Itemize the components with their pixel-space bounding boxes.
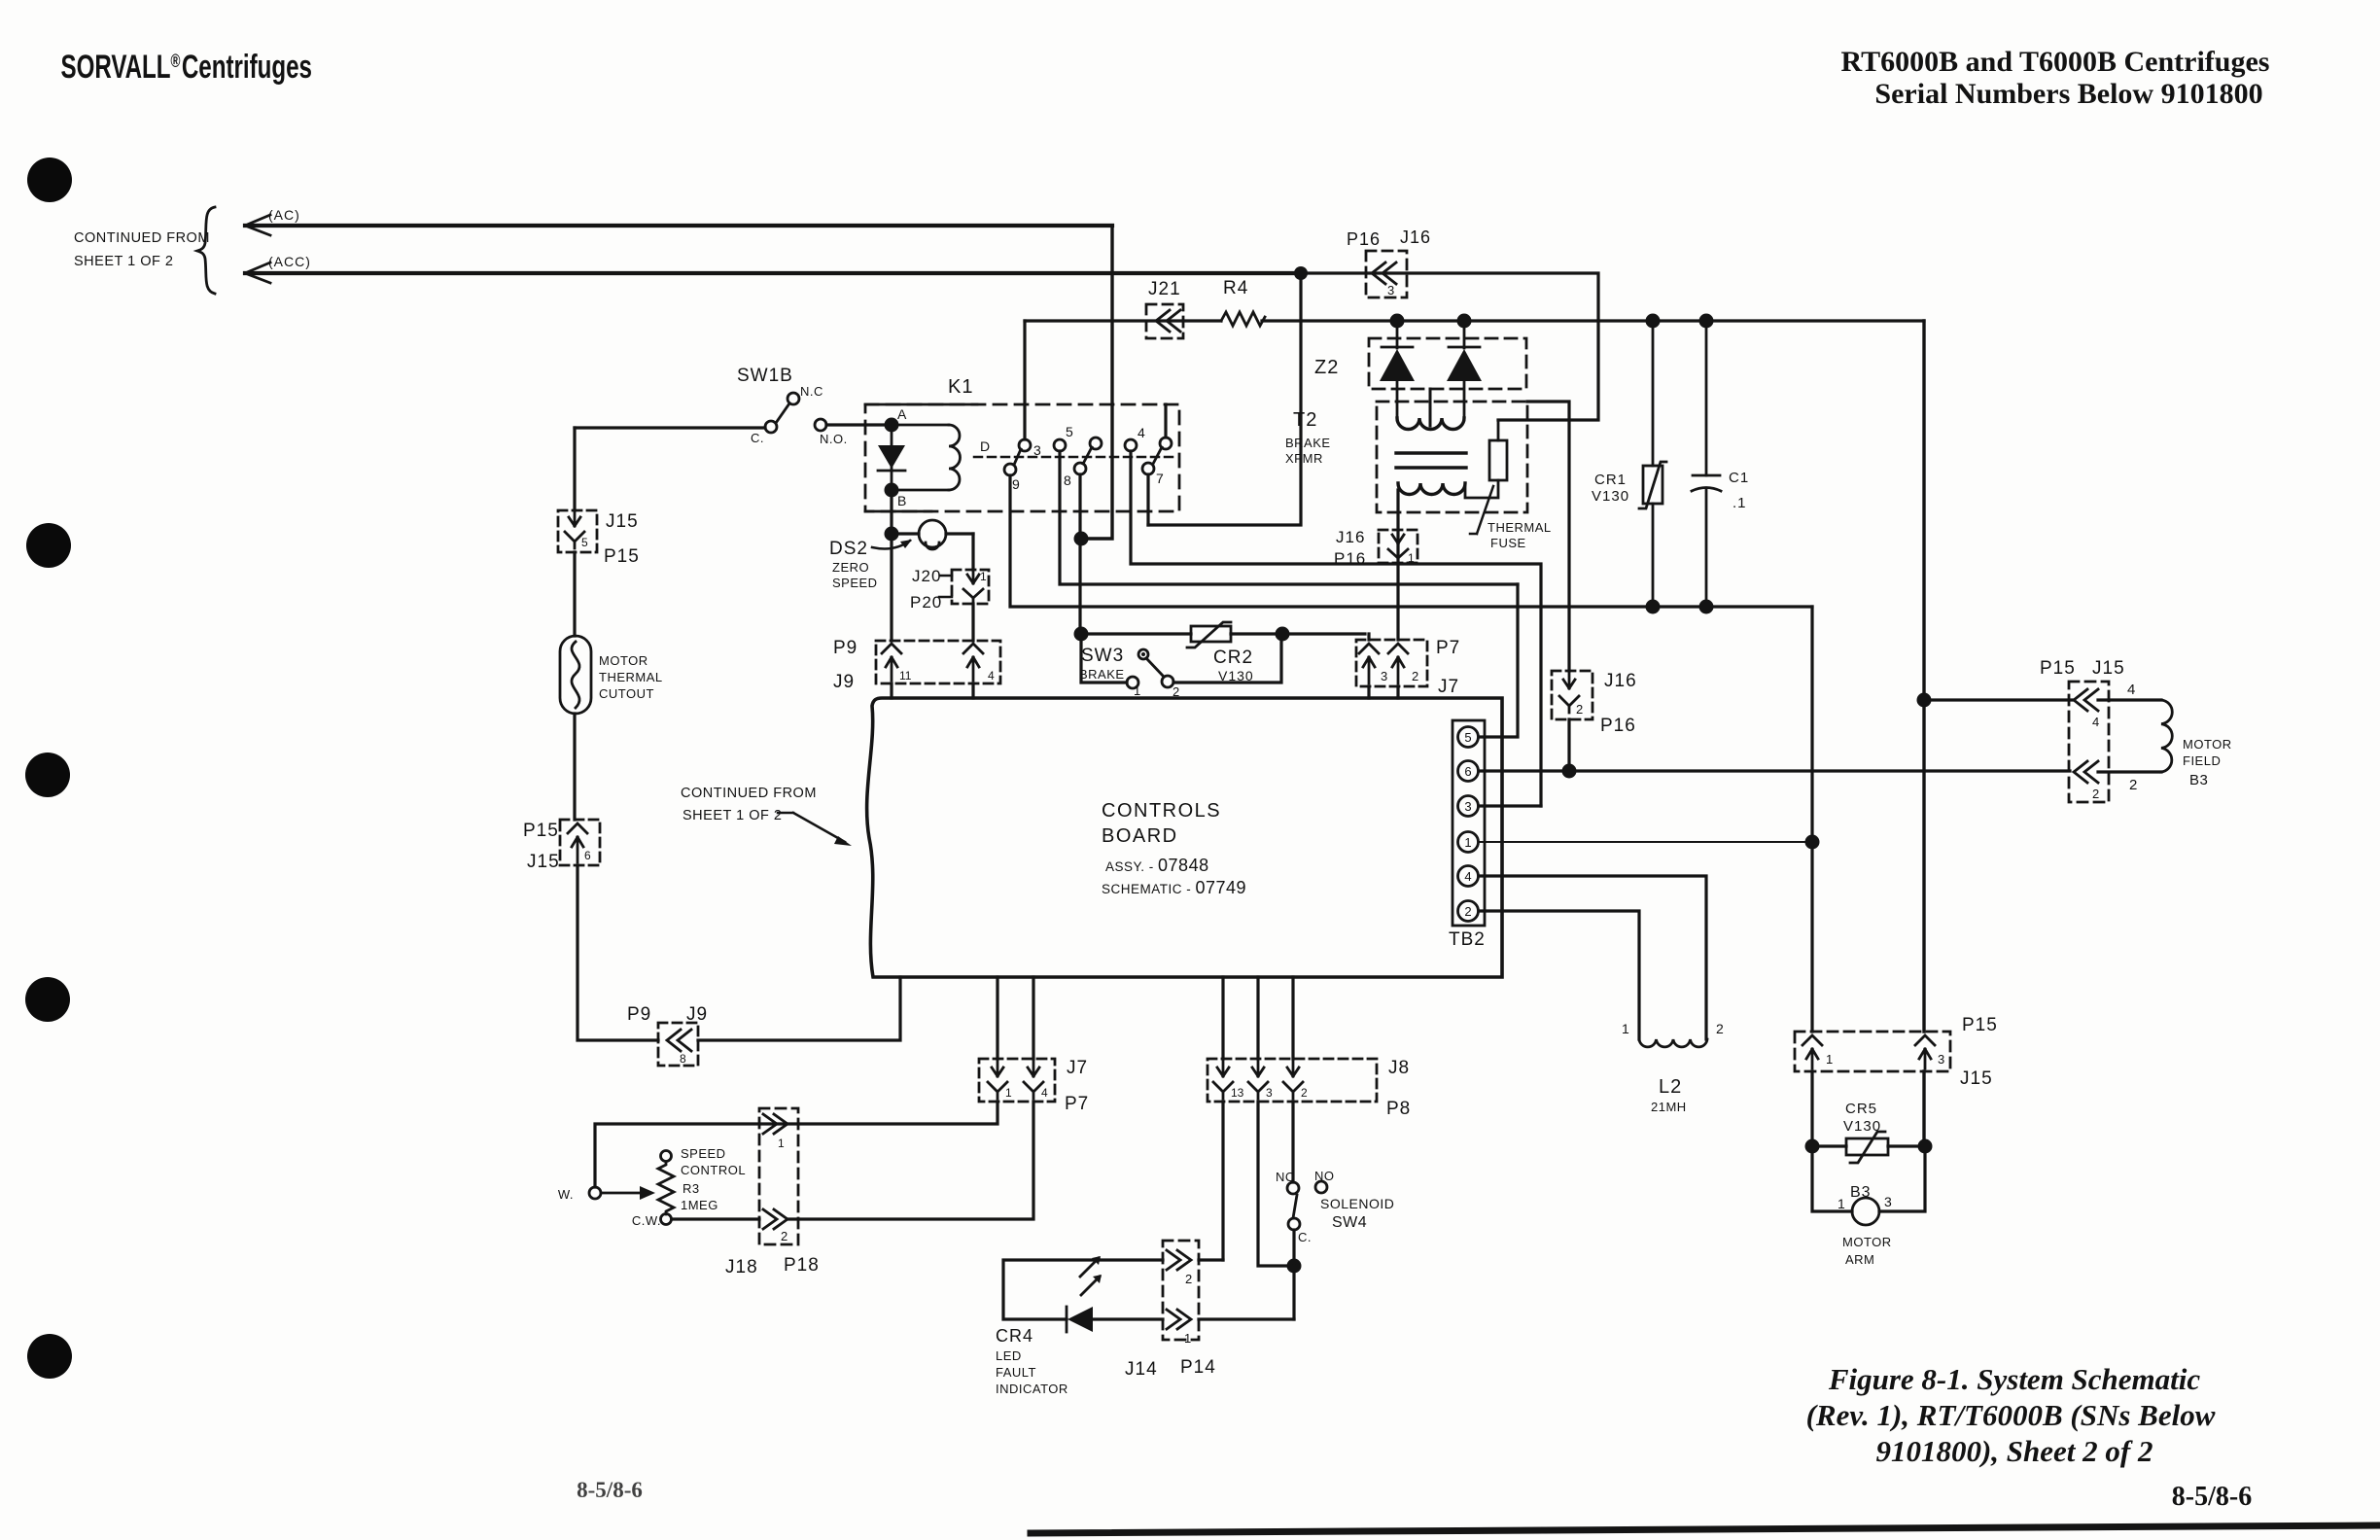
junction motor field tap dot (1917, 693, 1932, 708)
svg-text:BRAKE: BRAKE (1079, 667, 1125, 682)
svg-text:LED: LED (996, 1348, 1022, 1363)
wire TB2-2 to L2 pin 1 (1479, 911, 1639, 1039)
connector P16/J16 pin 3 (1347, 227, 1431, 297)
motor field winding B3 (2161, 700, 2232, 788)
figure caption (1806, 1362, 2216, 1468)
connector P15/J15 pins 4,2 (motor field) (2040, 658, 2125, 802)
svg-text:6: 6 (584, 849, 591, 862)
wire K1 contact7 to ACC drop (1146, 474, 1149, 525)
connector P15/J15 pins 1,3 (motor arm) (1795, 1015, 1998, 1089)
wire P9 pin4 to board (971, 683, 974, 698)
varistor CR5 (1812, 1101, 1925, 1163)
svg-text:J15: J15 (606, 511, 639, 532)
svg-text:FAULT: FAULT (996, 1365, 1036, 1380)
wire board to J8 pins (1223, 977, 1293, 1059)
svg-text:CONTINUED FROM: CONTINUED FROM (74, 230, 210, 246)
svg-text:J15: J15 (2092, 658, 2125, 679)
svg-text:2: 2 (1464, 904, 1471, 919)
continued-from label (top left) (74, 230, 210, 269)
svg-text:1: 1 (1622, 1021, 1629, 1036)
svg-text:J7: J7 (1067, 1058, 1088, 1078)
wire J8 pin13 down to J14 pin2 line (1221, 1102, 1224, 1260)
svg-text:BRAKE: BRAKE (1285, 436, 1331, 450)
connector J21 (1146, 279, 1183, 338)
svg-text:J8: J8 (1388, 1058, 1410, 1078)
varistor CR1 (1592, 321, 1666, 607)
svg-text:B3: B3 (1850, 1184, 1872, 1201)
svg-text:XFMR: XFMR (1285, 451, 1323, 466)
svg-text:P16: P16 (1600, 716, 1636, 736)
wire J9 pin8 to board bottom (698, 977, 900, 1040)
svg-text:3: 3 (1938, 1052, 1944, 1067)
svg-text:P20: P20 (910, 593, 942, 612)
wire TB2-1 to P15 pin1 riser (1479, 841, 1812, 843)
svg-text:INDICATOR: INDICATOR (996, 1382, 1068, 1396)
connector J16/P16 pin 1 (1334, 528, 1417, 568)
svg-text:SHEET 1 OF 2: SHEET 1 OF 2 (682, 808, 782, 823)
wire solenoid node down to J14 pin1 line (1292, 1266, 1295, 1319)
svg-text:2: 2 (2092, 787, 2099, 801)
svg-text:SW3: SW3 (1081, 646, 1124, 666)
svg-text:13: 13 (1231, 1086, 1244, 1100)
wire SW1B common drop (left column) (575, 428, 658, 1040)
svg-text:2: 2 (1301, 1086, 1308, 1100)
node A (885, 418, 899, 433)
svg-text:8-5/8-6: 8-5/8-6 (2172, 1482, 2252, 1512)
svg-text:5: 5 (581, 536, 588, 549)
svg-text:P14: P14 (1180, 1357, 1216, 1378)
punch holes column (25, 157, 72, 1379)
junction TB2-6/J16-2 dot (1562, 764, 1577, 779)
svg-text:P7: P7 (1065, 1094, 1089, 1114)
switch SW3 brake + varistor CR2 (1079, 622, 1365, 699)
diode CR (K1 coil suppression) (891, 425, 893, 490)
svg-text:P16: P16 (1334, 549, 1366, 568)
svg-text:MOTOR: MOTOR (2183, 737, 2232, 752)
svg-text:P15: P15 (604, 546, 640, 567)
potentiometer R3 speed control (558, 1146, 746, 1228)
svg-text:2: 2 (1576, 702, 1583, 717)
connector J18/P18 pins 1,2 (725, 1108, 820, 1277)
svg-text:9: 9 (1012, 476, 1020, 492)
svg-text:4: 4 (2092, 715, 2099, 729)
T2 secondary winding (top, to Z2) (1397, 418, 1464, 430)
svg-text:D: D (980, 438, 990, 454)
transformer T2 brake xfmr (1285, 389, 1552, 550)
svg-text:8: 8 (680, 1052, 686, 1066)
svg-text:MOTOR: MOTOR (599, 653, 648, 668)
T2 core (1396, 453, 1466, 468)
svg-text:SPEED: SPEED (832, 576, 878, 590)
wire J7 pin1 to speed control W (595, 1102, 997, 1187)
svg-text:ZERO: ZERO (832, 560, 869, 575)
svg-text:1MEG: 1MEG (681, 1198, 718, 1212)
junction SW3 right dot (1276, 627, 1290, 642)
svg-text:J16: J16 (1400, 227, 1431, 247)
svg-text:4: 4 (1137, 425, 1145, 440)
node B (885, 483, 899, 498)
svg-text:THERMAL: THERMAL (599, 670, 663, 684)
svg-text:SHEET 1 OF 2: SHEET 1 OF 2 (74, 254, 173, 269)
svg-text:1: 1 (1408, 551, 1415, 565)
T2 primary winding (bottom) (1398, 483, 1465, 495)
svg-text:SORVALL®Centrifuges: SORVALL®Centrifuges (60, 49, 311, 86)
svg-text:L2: L2 (1659, 1076, 1682, 1098)
svg-text:J15: J15 (527, 852, 560, 872)
svg-text:Serial Numbers Below 9101800: Serial Numbers Below 9101800 (1874, 78, 2262, 110)
page bottom edge scan line (1031, 1525, 2380, 1533)
diode Z2-left (1396, 321, 1399, 420)
svg-text:1: 1 (778, 1137, 785, 1150)
svg-text:CONTROL: CONTROL (681, 1163, 746, 1177)
svg-text:11: 11 (899, 669, 912, 682)
wire K1 contact4 to TB2-3 (1131, 451, 1541, 806)
wire ACC drop to K1 pole 4/7 (1148, 273, 1301, 525)
svg-text:5: 5 (1464, 730, 1471, 745)
svg-text:SW1B: SW1B (737, 366, 793, 386)
wire T2 secondary to J16 pin1 and P7 pin2 (1396, 490, 1399, 698)
svg-text:J7: J7 (1438, 677, 1459, 697)
svg-text:MOTOR: MOTOR (1842, 1235, 1892, 1249)
svg-text:1: 1 (1134, 683, 1140, 698)
wire ACC line with left arrowhead (245, 271, 1301, 275)
wire motor field pin2 (2098, 770, 2161, 773)
relay K1 (865, 376, 1179, 511)
junction solenoid node dot (1287, 1259, 1302, 1274)
svg-text:ARM: ARM (1845, 1252, 1874, 1267)
svg-text:P18: P18 (784, 1255, 820, 1276)
svg-text:21MH: 21MH (1651, 1100, 1687, 1114)
wire TB2-5 to contact5 bus (1479, 584, 1518, 737)
svg-text:J20: J20 (912, 567, 941, 585)
svg-text:2: 2 (1185, 1272, 1192, 1286)
terminal strip TB2 (1449, 720, 1486, 950)
svg-text:CONTINUED FROM: CONTINUED FROM (681, 786, 817, 801)
svg-text:(ACC): (ACC) (268, 254, 311, 269)
svg-text:1: 1 (1005, 1086, 1012, 1100)
coil K1 (892, 425, 949, 490)
svg-text:TB2: TB2 (1449, 929, 1486, 950)
svg-text:4: 4 (2127, 682, 2135, 698)
svg-text:THERMAL: THERMAL (1487, 520, 1552, 535)
wire DS2 to J20 (971, 534, 974, 641)
wire TB2-3 stub (1479, 804, 1541, 807)
junction DS2/coil-B dot (885, 527, 899, 542)
svg-text:J14: J14 (1125, 1359, 1158, 1380)
svg-text:CR4: CR4 (996, 1326, 1033, 1346)
wire motor-arm bus corner down right side (1810, 607, 1813, 1146)
svg-text:CR2: CR2 (1213, 647, 1253, 668)
junction SW3 left dot (1074, 627, 1089, 642)
dual diode Z2 (1314, 321, 1526, 420)
connector J14/P14 pins 2,1 (1125, 1241, 1216, 1380)
svg-text:6: 6 (1464, 764, 1471, 779)
svg-text:V130: V130 (1592, 488, 1629, 505)
connector J20/P20 (910, 567, 989, 612)
wire TB2-6 to motor field pin2 (1479, 769, 2070, 772)
controls board outline (867, 698, 1502, 977)
wire motor field pin4 (1924, 698, 2161, 701)
thermal switch motor thermal cutout (560, 636, 663, 714)
wire AC line with left arrowhead (245, 224, 1112, 227)
connector P9/J9 pins 11,4 (833, 638, 1000, 692)
svg-text:P8: P8 (1386, 1099, 1411, 1119)
svg-text:8: 8 (1064, 472, 1071, 488)
svg-text:K1: K1 (948, 376, 973, 398)
wire Z2-left cathode to J16 pin2 chain (1527, 402, 1569, 771)
connector J16/P16 pin 2 (1552, 671, 1637, 736)
svg-text:2: 2 (781, 1229, 787, 1243)
svg-text:N.O.: N.O. (820, 432, 848, 446)
contact K1-4/7 (1125, 439, 1137, 451)
controls board title (1102, 800, 1246, 897)
continued-from label (board) (681, 786, 817, 823)
svg-text:1: 1 (980, 570, 987, 583)
svg-text:P7: P7 (1436, 638, 1460, 658)
switch SW4 solenoid (1276, 1169, 1394, 1266)
junction CR1 bottom dot (1646, 600, 1661, 614)
wire K1 contact8 / AC junction to SW3 (1078, 474, 1081, 634)
wire K1 pole 4/7 arm riser (1164, 404, 1167, 437)
svg-text:A: A (897, 406, 907, 422)
svg-text:BOARD: BOARD (1102, 825, 1178, 847)
svg-text:C.: C. (1298, 1230, 1312, 1244)
wire SW1B NO to K1 coil (826, 423, 892, 426)
wire J8 pin3 down to solenoid node (1258, 1102, 1294, 1266)
connector P9/J9 pin 8 (627, 1004, 708, 1066)
header right: RT6000B and T6000B Centrifuges / Serial Numbers Below 9101800 (1841, 46, 2270, 110)
connector J7/P7 pins 1,4 (979, 1058, 1089, 1114)
svg-text:P16: P16 (1347, 229, 1381, 249)
svg-text:3: 3 (1381, 669, 1387, 683)
wire J14 pin2 to J8-13 riser (1199, 1258, 1223, 1261)
wire J8 pin2 down to SW4 (1291, 1102, 1294, 1182)
junction TB2-1 dot (1805, 835, 1820, 850)
svg-text:J15: J15 (1960, 1068, 1993, 1089)
wire J14 pin1 to solenoid node (1199, 1317, 1294, 1320)
svg-text:CONTROLS: CONTROLS (1102, 800, 1221, 822)
svg-text:4: 4 (988, 669, 995, 682)
svg-text:2: 2 (1716, 1021, 1724, 1036)
connector P15/J15 pin 6 (523, 820, 600, 872)
svg-text:5: 5 (1066, 424, 1073, 439)
svg-text:9101800), Sheet 2 of 2: 9101800), Sheet 2 of 2 (1875, 1434, 2152, 1468)
svg-text:3: 3 (1387, 283, 1394, 297)
svg-text:T2: T2 (1293, 409, 1317, 431)
svg-text:.1: .1 (1732, 495, 1747, 511)
svg-text:1: 1 (1837, 1196, 1845, 1211)
svg-text:RT6000B and T6000B Centrifuges: RT6000B and T6000B Centrifuges (1841, 46, 2270, 78)
wire board to J7 pins (997, 977, 1033, 1059)
svg-text:FUSE: FUSE (1490, 536, 1526, 550)
svg-text:J16: J16 (1604, 671, 1637, 691)
svg-text:P15: P15 (2040, 658, 2076, 679)
inductor L2 (1622, 1021, 1724, 1114)
svg-text:W.: W. (558, 1187, 574, 1202)
header left: SORVALL Centrifuges logo text (60, 49, 311, 86)
svg-text:SOLENOID: SOLENOID (1320, 1196, 1394, 1211)
junction CR5 right dot (1918, 1139, 1933, 1154)
svg-text:2: 2 (2129, 777, 2137, 793)
svg-text:R3: R3 (682, 1181, 700, 1196)
contact mechanical link (dashed) (974, 456, 1178, 459)
svg-text:Figure 8-1. System Schematic: Figure 8-1. System Schematic (1828, 1362, 2201, 1396)
wire CW to J18 pin2 (672, 1217, 759, 1220)
svg-text:1: 1 (1184, 1331, 1191, 1346)
svg-text:Z2: Z2 (1314, 357, 1339, 378)
svg-text:FIELD: FIELD (2183, 753, 2221, 768)
svg-text:3: 3 (1033, 442, 1041, 458)
junction C1 bottom dot (1699, 600, 1714, 614)
wire ACC to P16/J16 pin3 and corner to T2 (1301, 273, 1598, 420)
wire coil B down to P9/J9 pin 11 (890, 490, 892, 698)
diode Z2-right (1463, 321, 1466, 420)
svg-text:1: 1 (1464, 835, 1471, 850)
svg-text:C.W.: C.W. (632, 1213, 661, 1228)
svg-text:J21: J21 (1148, 279, 1181, 299)
resistor R4 (1221, 312, 1265, 326)
svg-text:J9: J9 (833, 672, 855, 692)
lamp DS2 zero speed (829, 520, 973, 590)
wire AC vertical drop (1081, 226, 1112, 539)
svg-text:7: 7 (1156, 471, 1164, 486)
svg-text:8-5/8-6: 8-5/8-6 (577, 1478, 643, 1502)
svg-text:DS2: DS2 (829, 539, 868, 559)
wire P7 pin3 to board (1367, 634, 1370, 698)
svg-text:C1: C1 (1729, 470, 1749, 486)
junction AC/contact8 dot (1074, 532, 1089, 546)
wire K1 contact3 riser to R4 line (1023, 321, 1026, 439)
connector J8/P8 pins 13,3,2 (1207, 1058, 1411, 1119)
thermal fuse (1489, 440, 1507, 480)
svg-text:B3: B3 (2189, 772, 2208, 788)
svg-text:B: B (897, 493, 906, 508)
svg-text:CR5: CR5 (1845, 1101, 1877, 1117)
svg-text:4: 4 (1041, 1086, 1048, 1100)
svg-text:3: 3 (1266, 1086, 1273, 1100)
svg-text:R4: R4 (1223, 278, 1248, 298)
svg-text:(Rev. 1), RT/T6000B (SNs Below: (Rev. 1), RT/T6000B (SNs Below (1806, 1398, 2216, 1432)
svg-text:P9: P9 (627, 1004, 651, 1025)
svg-text:2: 2 (1412, 669, 1418, 683)
svg-text:SW4: SW4 (1332, 1214, 1367, 1231)
wire K1 contact9 to motor-arm bus (1010, 475, 1812, 607)
svg-text:3: 3 (1464, 799, 1471, 814)
motor B3 motor arm (1812, 1146, 1925, 1267)
svg-text:3: 3 (1884, 1194, 1892, 1209)
wire TB2-4 to L2 pin 2 (1479, 876, 1706, 1039)
svg-text:CR1: CR1 (1594, 472, 1627, 488)
junction ACC/P16 dot (1294, 266, 1308, 280)
svg-text:J9: J9 (686, 1004, 708, 1025)
junction C1 top dot (1699, 314, 1714, 329)
svg-text:1: 1 (1826, 1052, 1833, 1067)
svg-text:P15: P15 (1962, 1015, 1998, 1035)
junction R4 line / Z2 dots (1390, 314, 1405, 329)
connector J15/P15 pin 5 (558, 510, 640, 567)
svg-text:SPEED: SPEED (681, 1146, 726, 1161)
contact K1-3/9 (1019, 439, 1031, 451)
continued-from brace (top left) (197, 207, 215, 294)
wire R4 line from K1 contact3 riser to right side (1025, 319, 1924, 322)
led CR4 fault indicator (996, 1256, 1163, 1396)
wire R4 net corner down to motor field (1922, 321, 1925, 1146)
svg-text:(AC): (AC) (268, 207, 300, 223)
svg-text:J18: J18 (725, 1257, 758, 1277)
svg-text:J16: J16 (1336, 528, 1365, 546)
wire J7 pin4 to speed control CW (787, 1102, 1033, 1219)
svg-text:CUTOUT: CUTOUT (599, 686, 654, 701)
junction CR5 left dot (1805, 1139, 1820, 1154)
T2 secondary center tap (1429, 389, 1432, 426)
junction CR1 top dot (1646, 314, 1661, 329)
switch SW1B (575, 366, 848, 446)
connector P7/J7 pins 3,2 (1356, 638, 1460, 697)
wire K1 contact5 to TB2-5 (1060, 451, 1518, 584)
svg-text:P15: P15 (523, 821, 559, 841)
svg-text:4: 4 (1464, 869, 1471, 884)
capacitor C1 (1692, 321, 1749, 607)
contact K1-5/8 (1054, 439, 1066, 451)
svg-text:N.C: N.C (800, 384, 823, 399)
svg-text:C.: C. (751, 431, 764, 445)
svg-text:P9: P9 (833, 638, 857, 658)
